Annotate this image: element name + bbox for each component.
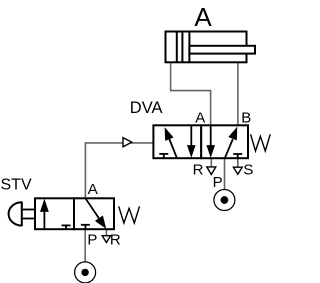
svg-text:DVA: DVA [130,99,163,117]
svg-text:STV: STV [1,177,32,194]
DVA return spring (right) [251,134,271,151]
svg-text:A: A [194,2,212,32]
DVA pneumatic pilot (left, triangle on wire) [123,138,132,147]
wire DVA P port to pressure source [224,158,226,190]
svg-text:A: A [195,109,205,126]
svg-text:R: R [193,161,204,178]
DVA left box blocked port R (T symbol) [159,154,168,158]
svg-text:S: S [243,161,253,178]
STV return spring (right) [119,206,140,223]
DVA right box arrow P to B (up-right diagonal) [225,127,238,159]
valve DVA body right box [201,125,248,158]
wire cylinder right port to valve B [237,63,239,126]
svg-text:P: P [87,231,97,248]
cylinder A body [166,32,247,63]
DVA right box arrow A to R (down) [206,125,215,158]
DVA pressure source P (circle with dot) [214,190,235,211]
DVA left box arrow B to S (down) [187,125,196,158]
svg-text:P: P [213,174,223,191]
DVA exhaust triangle R [207,167,216,175]
valve DVA body left box [153,125,201,158]
wire STV P port to pressure source [84,229,86,262]
DVA right box blocked port S (T symbol) [233,154,242,158]
STV manual push button (mushroom, left) [9,202,34,227]
valve STV body right box [74,198,114,229]
STV left box arrow P to A (up) [40,199,49,230]
DVA exhaust triangle S [233,167,242,174]
wire STV A port to DVA pilot [85,143,153,198]
STV right box blocked port P (T symbol) [81,225,90,229]
svg-text:B: B [241,109,251,126]
DVA left box arrow P to A (up-left diagonal) [165,127,177,158]
svg-text:R: R [110,231,121,248]
STV pressure source P (circle with dot) [75,262,96,283]
wire stub DVA port S [237,158,239,167]
wire stub STV port R [105,229,107,236]
wire stub DVA port R [210,158,212,167]
svg-text:A: A [88,181,98,198]
STV left box blocked port (T symbol) [62,225,71,229]
cylinder A piston rod [189,46,255,54]
wire cylinder left port to valve A [171,63,211,126]
STV exhaust triangle R [102,236,110,243]
valve STV body left box [35,198,74,229]
STV right box arrow A to R (down-right diagonal) [85,198,106,229]
